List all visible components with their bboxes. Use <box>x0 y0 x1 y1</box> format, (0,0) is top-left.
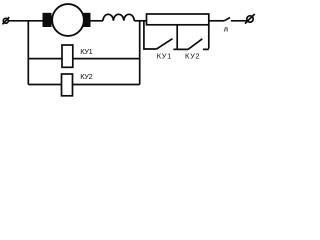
wire: left terminal to motor left brush <box>8 20 43 22</box>
wire: inductor to resistor left edge <box>134 20 146 22</box>
motor M1 <box>43 4 91 36</box>
terminal X1 (left) <box>2 17 9 24</box>
contact KU1 blade <box>157 39 173 49</box>
wire: contact KU1 left wall from main wire down, with bottom line <box>144 21 157 49</box>
relay coil KU1 <box>62 45 73 67</box>
switch L blade <box>224 18 230 21</box>
wire: motor right brush to inductor <box>91 20 104 22</box>
wire: resistor right edge to switch blade <box>209 20 224 22</box>
svg-text:КУ1: КУ1 <box>80 47 93 56</box>
resistor R (starting resistor, two sections) <box>147 14 209 25</box>
wire: contact KU2 right wall from resistor bottom down, with foot <box>203 25 209 50</box>
svg-text:КУ1: КУ1 <box>157 51 172 60</box>
terminal X2 (right) <box>245 14 255 24</box>
contact KU2 blade <box>188 39 202 50</box>
svg-text:Л: Л <box>224 27 228 33</box>
wire: long vertical x=139.7 from main wire down to branch 2 <box>139 21 141 85</box>
inductor L1 <box>103 14 134 21</box>
relay coil KU2 <box>62 74 73 96</box>
wire: branch 1 (KU1 coil) horizontal <box>28 58 139 60</box>
wire: switch to right terminal <box>231 20 247 22</box>
svg-text:КУ2: КУ2 <box>185 51 200 60</box>
wire: junction dropper at x=28.3 down to branch 2 <box>27 21 29 85</box>
svg-text:КУ2: КУ2 <box>80 72 93 81</box>
wire: resistor middle tap with foot bar <box>173 25 188 50</box>
wire: branch 2 (KU2 coil) horizontal <box>28 84 139 86</box>
